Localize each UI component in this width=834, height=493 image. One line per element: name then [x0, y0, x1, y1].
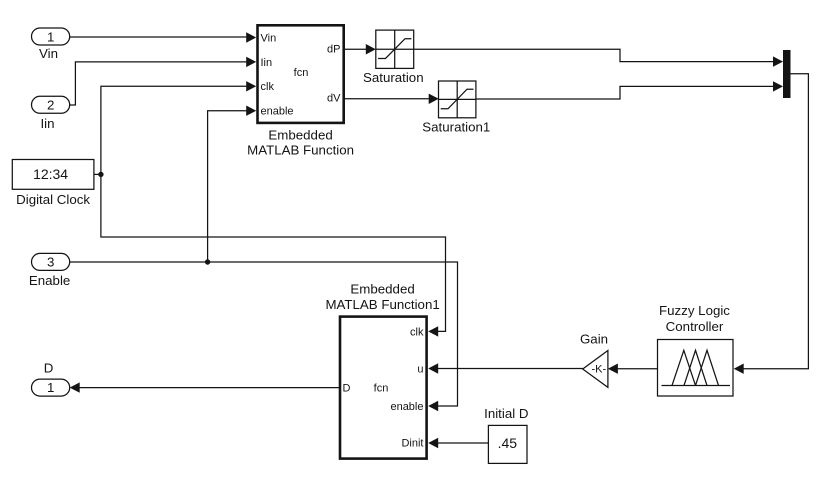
svg-text:Saturation: Saturation	[363, 70, 424, 85]
svg-text:Embedded: Embedded	[350, 282, 414, 297]
svg-text:Saturation1: Saturation1	[422, 120, 490, 135]
wire Enable to EMF1 enable	[70, 262, 458, 411]
svg-text:clk: clk	[261, 81, 275, 93]
svg-text:Gain: Gain	[580, 332, 608, 347]
wire dV to Saturation1	[345, 94, 439, 104]
svg-text:fcn: fcn	[374, 382, 389, 394]
mux bar	[783, 50, 791, 98]
svg-text:dP: dP	[327, 43, 340, 55]
junction clock	[98, 172, 103, 177]
wire Vin to EMF	[70, 32, 257, 42]
svg-text:fcn: fcn	[294, 67, 309, 79]
svg-text:MATLAB Function1: MATLAB Function1	[325, 297, 439, 312]
wire dP to Saturation	[345, 44, 376, 54]
fuzzy logic controller block	[658, 303, 734, 396]
svg-text:Initial D: Initial D	[484, 406, 528, 421]
wire Saturation to mux	[414, 49, 783, 67]
wire Iin to EMF	[70, 57, 257, 105]
junction enable	[205, 259, 210, 264]
wire clock output	[94, 173, 101, 175]
svg-text:Digital Clock: Digital Clock	[16, 192, 90, 207]
initial D constant block	[484, 406, 528, 463]
wire clock to EMF1 clk	[101, 174, 446, 336]
svg-text:3: 3	[47, 255, 54, 270]
svg-text:enable: enable	[390, 401, 423, 413]
outport 1 D	[32, 361, 70, 397]
wire EMF1 D to outport	[70, 382, 339, 392]
svg-text:Vin: Vin	[39, 46, 58, 61]
saturation block	[363, 30, 424, 85]
wire Gain to EMF1 u	[428, 363, 583, 373]
wire clock to EMF clk	[101, 81, 256, 174]
svg-text:Fuzzy Logic: Fuzzy Logic	[659, 303, 730, 318]
svg-text:1: 1	[47, 380, 54, 395]
digital clock block	[12, 160, 94, 208]
svg-text:1: 1	[47, 30, 54, 45]
svg-text:D: D	[343, 383, 351, 395]
svg-text:Iin: Iin	[40, 116, 54, 131]
svg-text:clk: clk	[410, 326, 424, 338]
op-amp EMF1 block Embedded MATLAB Function1	[325, 282, 439, 459]
svg-text:12:34: 12:34	[33, 166, 68, 182]
svg-text:-K-: -K-	[591, 364, 606, 376]
wire mux to Fuzzy Logic Controller	[734, 74, 809, 374]
svg-text:.45: .45	[498, 435, 518, 451]
wire Saturation1 to mux	[476, 81, 783, 99]
saturation1 block	[422, 81, 490, 135]
op-amp EMF block Embedded MATLAB Function	[247, 25, 354, 157]
svg-text:MATLAB Function: MATLAB Function	[247, 142, 354, 157]
wire enable branch to EMF enable	[208, 106, 257, 263]
wire FLC to Gain	[608, 364, 658, 374]
inport 1 Vin	[32, 28, 70, 61]
inport 2 Iin	[32, 96, 70, 131]
svg-text:dV: dV	[327, 92, 341, 104]
svg-text:enable: enable	[261, 106, 294, 118]
svg-text:2: 2	[47, 98, 54, 113]
svg-text:u: u	[417, 363, 423, 375]
gain triangle	[580, 332, 608, 388]
svg-text:Enable: Enable	[29, 273, 70, 288]
svg-text:Embedded: Embedded	[268, 127, 332, 142]
inport 3 Enable	[29, 253, 70, 288]
svg-text:Iin: Iin	[261, 57, 273, 69]
svg-text:D: D	[44, 361, 54, 376]
svg-text:Controller: Controller	[666, 319, 724, 334]
svg-text:Dinit: Dinit	[401, 438, 423, 450]
wire Initial D to EMF1 Dinit	[428, 438, 488, 448]
svg-text:Vin: Vin	[261, 32, 277, 44]
